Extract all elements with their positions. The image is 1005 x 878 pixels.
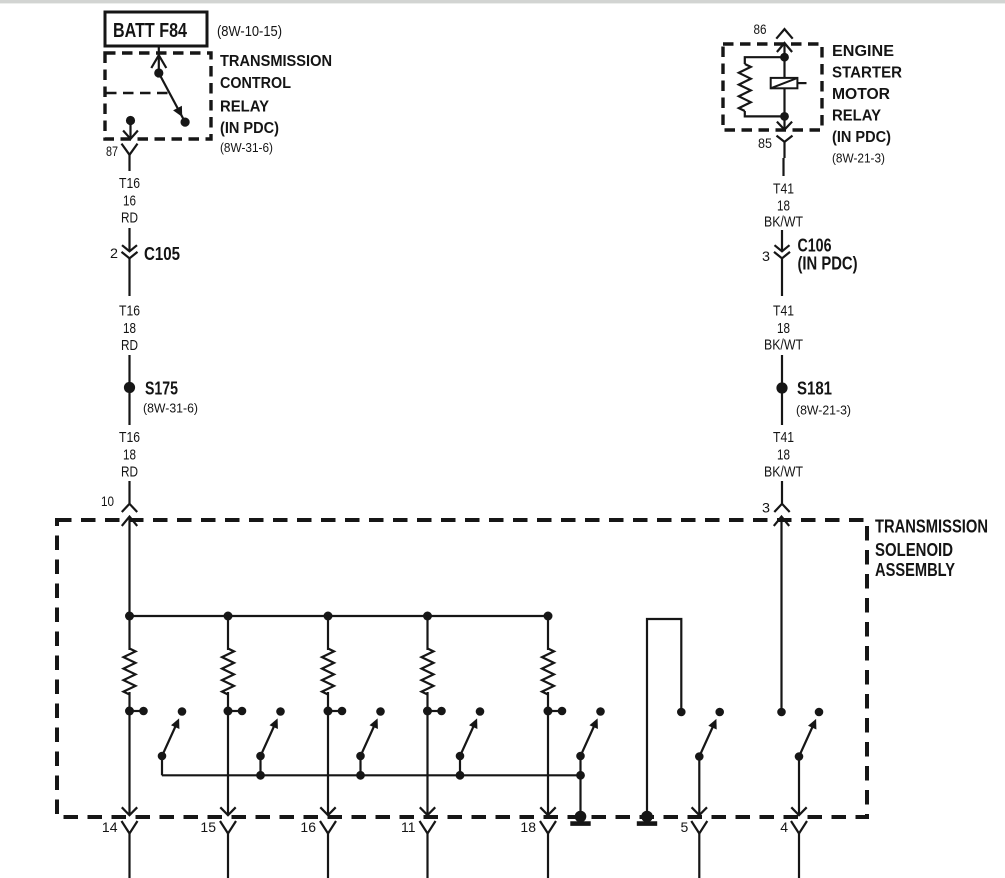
wire into solenoid assembly pin 10 [128, 481, 130, 504]
wire label T16 18 RD (lower) [119, 429, 140, 481]
splice name S175 [145, 379, 178, 399]
svg-text:3: 3 [762, 248, 770, 264]
reference label (8W-10-15) [217, 23, 282, 40]
pin 3 connector female half [774, 504, 789, 512]
solenoid output node pin 11 [423, 707, 432, 716]
rail junction node at pin 11 pivot [456, 771, 465, 780]
switch contact stub pin 15 [228, 707, 246, 716]
svg-text:RD: RD [121, 210, 138, 227]
switch fixed contact pin 4 [815, 708, 824, 717]
svg-text:(8W-31-6): (8W-31-6) [143, 401, 198, 416]
switch contact stub pin 18 [548, 707, 566, 716]
wire into splice S181 [781, 355, 783, 383]
svg-text:S181: S181 [797, 379, 832, 399]
rail junction node at pin 15 pivot [256, 771, 265, 780]
svg-text:18: 18 [777, 320, 790, 337]
splice S181 node [776, 382, 787, 393]
pressure switch arm pin 11 [460, 718, 477, 756]
svg-text:18: 18 [123, 320, 136, 337]
relay switch arm arrowhead [173, 106, 182, 117]
wire label T41 18 BK/WT (lower) [764, 429, 803, 481]
wire below C105 [128, 258, 130, 296]
svg-text:S175: S175 [145, 379, 178, 399]
svg-text:10: 10 [101, 493, 114, 509]
switch fixed contact pin 5 [715, 708, 724, 717]
wire bus to solenoid 16 [327, 616, 329, 650]
svg-text:C106: C106 [798, 236, 832, 256]
wire label T16 18 RD (upper) [119, 303, 140, 355]
connector C106 female vee [774, 252, 790, 258]
svg-text:TRANSMISSION: TRANSMISSION [875, 517, 988, 537]
output wire pin 5 [692, 757, 707, 816]
svg-text:2: 2 [110, 245, 118, 261]
wire label T41 18 BK/WT (relay side) [764, 181, 803, 231]
connector half below relay (Y) [122, 144, 138, 171]
relay common contact node [154, 68, 163, 77]
connector name C106 (IN PDC) [798, 236, 858, 274]
case ground G1 symbol [570, 821, 590, 826]
output wire pin 14 [122, 711, 137, 815]
relay label TRANSMISSION CONTROL RELAY (IN PDC) [220, 53, 332, 137]
svg-text:86: 86 [754, 21, 767, 37]
wire below S181 [781, 394, 783, 426]
suppression resistor branch wire [745, 57, 785, 64]
relay label ENGINE STARTER MOTOR RELAY (IN PDC) [832, 43, 902, 146]
wire BATT F84 to relay common [158, 46, 160, 73]
fuse feed box BATT F84 [105, 12, 207, 46]
svg-text:15: 15 [200, 819, 216, 835]
svg-text:(8W-31-6): (8W-31-6) [220, 140, 273, 155]
pin label 10 [101, 493, 114, 509]
pressure switch pivot node pin 16 [356, 752, 365, 761]
connector below pin 16 [320, 821, 336, 878]
svg-text:18: 18 [777, 197, 790, 214]
relay terminal 87 node [126, 116, 135, 125]
svg-text:5: 5 [681, 819, 689, 835]
relay coil top node [780, 53, 789, 62]
switch contact stub pin 11 [428, 707, 446, 716]
switch pivot to ground rail wire pin 15 [259, 756, 261, 775]
svg-text:(8W-21-3): (8W-21-3) [832, 151, 885, 166]
svg-text:RELAY: RELAY [832, 108, 881, 125]
wire bus to solenoid 14 [128, 616, 130, 650]
reference label (8W-31-6) at S175 [143, 401, 198, 416]
svg-text:(8W-21-3): (8W-21-3) [796, 403, 851, 418]
relay terminal 87 exit arrow (down) [123, 131, 138, 139]
switch fixed contact pin 15 [276, 707, 285, 716]
case ground G2 symbol [637, 821, 657, 826]
pin label 86 [754, 21, 767, 37]
pressure switch pivot node pin 11 [456, 752, 465, 761]
pin label 15 [200, 819, 216, 835]
switch arm pin 5 [699, 719, 716, 757]
label TRANSMISSION SOLENOID ASSEMBLY [875, 517, 988, 581]
solenoid output node pin 16 [324, 707, 333, 716]
suppression resistor lower wire [745, 111, 785, 116]
bus junction node col 16 [324, 612, 333, 621]
wire label T16 16 RD (fusible link feed) [119, 175, 140, 227]
pressure switch arm pin 18 [581, 718, 598, 756]
transmission solenoid assembly dashed box [57, 520, 867, 817]
connector below pin 15 [220, 821, 236, 878]
svg-text:RD: RD [121, 337, 138, 354]
transmission control relay dashed box [105, 53, 211, 139]
case ground G1 node [575, 811, 587, 823]
wire solenoid to node pin 18 [547, 692, 549, 711]
svg-text:(8W-10-15): (8W-10-15) [217, 23, 282, 40]
wire bus to solenoid 11 [426, 616, 428, 650]
bus junction node col 14 [125, 612, 134, 621]
svg-text:16: 16 [123, 192, 136, 209]
switch contact stub pin 16 [328, 707, 346, 716]
pin label 2 [110, 245, 118, 261]
wire into C106 [781, 230, 783, 251]
svg-text:BK/WT: BK/WT [764, 214, 803, 231]
wire label T41 18 BK/WT (upper) [764, 303, 803, 354]
solenoid output node pin 14 [125, 707, 134, 716]
bus junction node col 18 [544, 612, 553, 621]
pin 85 exit arrow [777, 116, 792, 129]
relay terminal 87 lead [129, 121, 131, 139]
switch pivot to ground wire pin 18 [579, 756, 581, 817]
relay terminal 30 arrow (up) [151, 55, 166, 68]
splice name S181 [797, 379, 832, 399]
svg-text:18: 18 [520, 819, 536, 835]
solenoid supply bus wire [130, 616, 549, 650]
reference label (8W-31-6) [220, 140, 273, 155]
rail junction node at pin 18 pivot [576, 771, 585, 780]
pin 10 connector female half [122, 504, 137, 512]
svg-text:14: 14 [102, 819, 118, 835]
bus junction node col 11 [423, 612, 432, 621]
pin label 3 at C106 [762, 248, 770, 264]
output wire pin 16 [320, 711, 335, 815]
pin 3 entry arrow [774, 517, 789, 712]
relay coil bottom node [780, 112, 789, 121]
solenoid coil (resistor) above pin 11 [422, 649, 434, 695]
wire solenoid to node pin 14 [128, 692, 130, 711]
relay armature linkage dashed line [106, 92, 168, 95]
pressure switch pivot node pin 14 [158, 752, 167, 761]
solenoid coil (resistor) above pin 14 [124, 649, 136, 695]
pressure switch arm pin 14 [162, 718, 179, 756]
svg-text:4: 4 [780, 819, 788, 835]
svg-text:ASSEMBLY: ASSEMBLY [875, 560, 955, 580]
pressure switch pivot node pin 15 [256, 752, 265, 761]
reference label (8W-21-3) at S181 [796, 403, 851, 418]
svg-text:11: 11 [401, 819, 416, 835]
pressure switch arm pin 15 [261, 718, 278, 756]
solenoid output node pin 15 [224, 707, 233, 716]
pin 86 connector chevron [776, 29, 792, 39]
pin 10 entry arrow [122, 517, 137, 616]
relay coil box U-coil [771, 78, 798, 88]
svg-text:ENGINE: ENGINE [832, 43, 894, 60]
switch fixed contact pin 18 [596, 707, 605, 716]
relay coil stub to case [797, 82, 806, 84]
pin label 16 [300, 819, 316, 835]
switch fixed contact pin 14 [178, 707, 187, 716]
pin label 4 [780, 819, 788, 835]
wire solenoid to node pin 16 [327, 692, 329, 711]
svg-text:TRANSMISSION: TRANSMISSION [220, 53, 332, 70]
switch fixed contact pin 11 [476, 707, 485, 716]
connector half below pin 85 (Y) [777, 136, 793, 158]
switch arm pin 4 [799, 719, 816, 757]
pin 86 entry arrow [777, 43, 792, 57]
output wire pin 4 [791, 757, 806, 816]
connector below pin 11 [420, 821, 436, 878]
svg-text:BK/WT: BK/WT [764, 337, 803, 354]
pin label 18 [520, 819, 536, 835]
wire into solenoid assembly pin 3 [781, 481, 783, 504]
solenoid coil (resistor) above pin 15 [222, 649, 234, 695]
pin label 87 [106, 143, 118, 159]
output wire pin 15 [220, 711, 235, 815]
switch pivot to ground rail wire pin 11 [459, 756, 461, 775]
svg-text:T41: T41 [773, 429, 794, 446]
ground feed hook wire to TCC switch [647, 619, 681, 817]
svg-text:T41: T41 [773, 181, 794, 198]
svg-text:BK/WT: BK/WT [764, 464, 803, 481]
relay coil vertical lead [783, 57, 785, 116]
solenoid coil (resistor) above pin 16 [322, 649, 334, 695]
pin label 3 at assembly [762, 500, 770, 516]
svg-text:RD: RD [121, 464, 138, 481]
svg-text:T16: T16 [119, 429, 140, 446]
svg-text:(IN PDC): (IN PDC) [220, 120, 279, 137]
connector C105 female vee [122, 252, 138, 258]
wire below S175 [128, 393, 130, 425]
scan artifact gray strip at top edge [0, 0, 1005, 3]
wire into splice S175 [128, 355, 130, 382]
output wire pin 11 [420, 711, 435, 815]
wire solenoid to node pin 11 [426, 692, 428, 711]
pressure switch pivot node pin 18 [576, 752, 585, 761]
relay switch arm [159, 73, 185, 122]
switch pivot to ground rail wire pin 14 [161, 756, 163, 775]
svg-text:MOTOR: MOTOR [832, 86, 890, 103]
switch contact stub pin 14 [130, 707, 148, 716]
svg-text:85: 85 [758, 135, 772, 151]
svg-text:RELAY: RELAY [220, 99, 269, 116]
switch fixed contact pin 16 [376, 707, 385, 716]
svg-text:T16: T16 [119, 175, 140, 192]
case ground G2 node [641, 811, 653, 823]
svg-text:3: 3 [762, 500, 770, 516]
svg-text:(IN PDC): (IN PDC) [798, 254, 858, 274]
connector below pin 18 [540, 821, 556, 878]
wire solenoid to node pin 15 [227, 692, 229, 711]
switch left contact pin 4 [777, 708, 786, 717]
reference label (8W-21-3) [832, 151, 885, 166]
suppression resistor [739, 64, 751, 111]
switch common ground rail [162, 774, 581, 776]
connector below pin 14 [122, 821, 138, 878]
wire bus to solenoid 15 [227, 616, 229, 650]
pin label 11 [401, 819, 416, 835]
pin label 5 [681, 819, 689, 835]
connector C105 male arrow (down) [122, 245, 137, 251]
svg-text:18: 18 [123, 446, 136, 463]
connector below pin 5 [691, 821, 707, 878]
svg-text:CONTROL: CONTROL [220, 75, 291, 92]
switch pivot to ground rail wire pin 16 [359, 756, 361, 775]
solenoid output node pin 18 [544, 707, 553, 716]
splice S175 node [124, 382, 135, 393]
svg-text:16: 16 [300, 819, 316, 835]
svg-text:BATT F84: BATT F84 [113, 20, 188, 42]
wire into C105 [128, 228, 130, 251]
svg-text:SOLENOID: SOLENOID [875, 540, 953, 560]
wire to T41 label [782, 158, 784, 176]
svg-text:87: 87 [106, 143, 118, 159]
connector C106 male arrow (down) [775, 245, 790, 251]
svg-text:(IN PDC): (IN PDC) [832, 129, 891, 146]
rail junction node at pin 16 pivot [356, 771, 365, 780]
output wire pin 18 [540, 711, 555, 815]
bus junction node col 15 [224, 612, 233, 621]
svg-text:T41: T41 [773, 303, 794, 320]
solenoid coil (resistor) above pin 18 [542, 649, 554, 695]
connector below pin 4 [791, 821, 807, 878]
relay NO contact node [181, 118, 190, 127]
switch left contact pin 5 [677, 708, 686, 717]
switch pivot node pin 4 [795, 752, 804, 761]
svg-text:T16: T16 [119, 303, 140, 320]
svg-text:C105: C105 [144, 244, 180, 264]
pin label 85 [758, 135, 772, 151]
pin label 14 [102, 819, 118, 835]
switch pivot node pin 5 [695, 752, 704, 761]
engine starter motor relay dashed box [723, 44, 822, 130]
pressure switch arm pin 16 [361, 718, 378, 756]
wire below C106 [781, 258, 783, 296]
svg-text:18: 18 [777, 446, 790, 463]
connector name C105 [144, 244, 180, 264]
svg-text:STARTER: STARTER [832, 65, 902, 82]
